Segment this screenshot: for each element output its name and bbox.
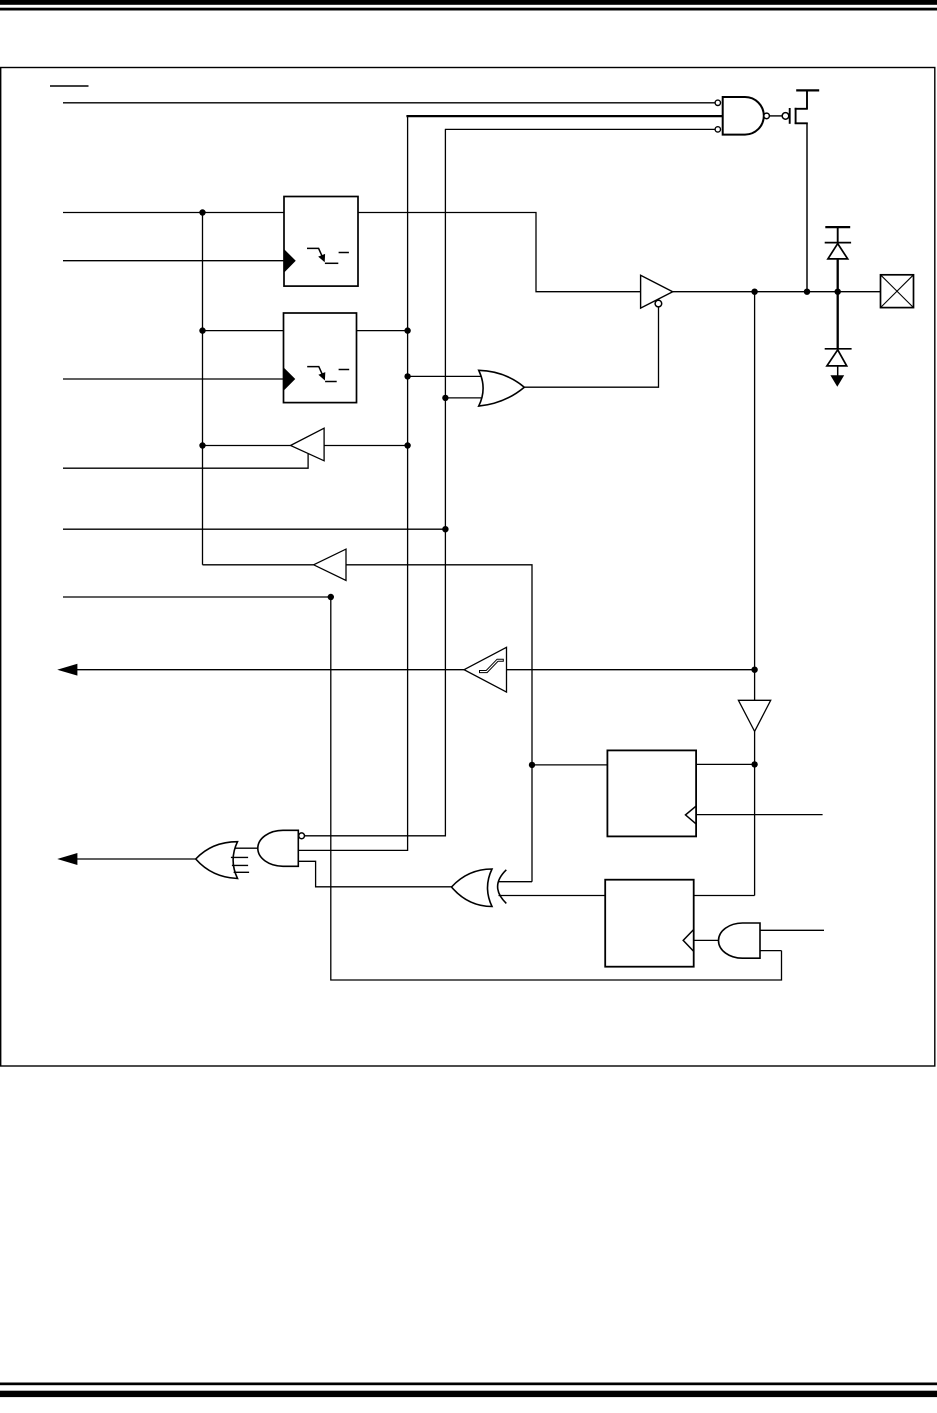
junction	[199, 209, 205, 215]
wire PMOS drain to pad node	[806, 123, 808, 291]
page footer thin rule	[0, 1383, 937, 1386]
junction	[751, 761, 757, 767]
inverter U3 (left-pointing)	[314, 549, 346, 580]
VDD rail bar	[796, 89, 819, 91]
buffer U6 (down-pointing)	[738, 700, 770, 731]
wire U7 input from feedback bus	[507, 669, 755, 671]
diode D1 (to VDD)	[828, 244, 848, 259]
wire output node to pad	[673, 291, 881, 293]
junction	[751, 667, 757, 673]
U5 enable bubble	[655, 300, 662, 307]
wire feedback bus upper	[754, 292, 756, 701]
VDD rail bar (diode)	[825, 226, 850, 228]
wire U3 input from x532 bus	[346, 565, 532, 882]
wire B1 output to driver	[358, 213, 641, 292]
junction	[442, 526, 448, 532]
diode D2 (to GND)	[827, 350, 847, 366]
junction	[804, 289, 810, 295]
output driver U5	[641, 275, 673, 308]
flip-flop FF1	[607, 750, 696, 836]
wire input line 4 to inverter enable	[63, 454, 308, 468]
input buffer box B1	[284, 197, 358, 287]
inverter U2 (left-pointing)	[291, 428, 325, 461]
junction	[328, 594, 334, 600]
wire NAND to PMOS gate	[769, 115, 782, 117]
wire U7 output	[76, 669, 465, 671]
junction	[404, 373, 410, 379]
wire XOR in2 / FF2 left	[499, 895, 606, 897]
wire input 1 to NAND	[63, 102, 715, 104]
B1 falling-edge glyph	[307, 248, 349, 263]
NAND gate G1	[723, 97, 764, 135]
diode D2 cathode bar	[825, 348, 852, 350]
NAND input bubble 2	[715, 127, 720, 132]
wire U9 input 1 stub	[760, 929, 824, 931]
page header thick rule	[0, 0, 937, 5]
wire U9 input 2	[760, 950, 782, 952]
NAND output bubble	[764, 113, 770, 119]
junction	[835, 289, 841, 295]
wire D2 anode to ground	[837, 366, 839, 376]
B2 falling-edge glyph	[307, 367, 349, 382]
wire U3 output	[203, 564, 314, 566]
wire bus x407	[298, 116, 407, 850]
pad P1	[881, 275, 914, 308]
wire to B2 input	[203, 330, 284, 332]
wire input line 6 feedback loop	[63, 597, 782, 980]
wire input line 1	[63, 212, 284, 214]
wire XOR output to U10 in3	[298, 861, 451, 887]
FF2 clock chevron	[683, 930, 694, 952]
wire U10 output to U11	[234, 847, 259, 849]
junction	[199, 327, 205, 333]
U7 slew-rate glyph	[480, 659, 504, 672]
junction	[404, 442, 410, 448]
U10 input bubble	[299, 833, 305, 839]
page header thin rule	[0, 8, 937, 11]
wire diode D1 cathode stem	[837, 227, 839, 243]
wire node to D2 cathode	[837, 292, 839, 349]
FF1 clock chevron	[686, 806, 697, 824]
PMOS gate bubble	[782, 113, 789, 120]
Schmitt buffer U7 (left-pointing)	[464, 647, 506, 692]
B2 clock wedge input	[284, 369, 294, 389]
wire U4 output to driver enable	[524, 307, 658, 387]
wire U4 input 1	[408, 375, 482, 377]
AND gate U9	[719, 923, 761, 958]
OR gate U4	[479, 370, 525, 406]
wire FF1 input	[532, 764, 607, 766]
wire U4 input 2	[445, 397, 481, 399]
transistor Q1 (PMOS pull-up)	[790, 90, 808, 124]
wire U2 output	[203, 445, 291, 447]
flip-flop FF2	[605, 880, 694, 967]
wire NAND input 3	[445, 128, 715, 130]
wire feedback bus lower	[754, 731, 756, 895]
arrowhead output 2	[59, 854, 77, 865]
label underline	[50, 85, 89, 87]
B1 clock wedge input	[285, 251, 295, 271]
figure frame	[1, 68, 935, 1067]
arrowhead output 1	[59, 664, 77, 675]
junction	[404, 327, 410, 333]
wire FF1 output	[696, 763, 755, 765]
wire AND U9 output to FF2 clock	[694, 939, 720, 941]
junction	[199, 442, 205, 448]
page footer thick rule	[0, 1391, 937, 1397]
ground arrow	[831, 376, 843, 386]
wire bus x445	[305, 129, 446, 835]
input buffer box B2	[284, 313, 357, 403]
junction	[442, 395, 448, 401]
junction	[751, 289, 757, 295]
junction	[529, 762, 535, 768]
wire U11 output	[76, 858, 196, 860]
OR gate U11 (left-pointing)	[196, 842, 249, 879]
wire input line 2	[63, 260, 285, 262]
wire vertical bus x202	[202, 212, 204, 565]
wire to FF2 right side	[694, 895, 755, 897]
wire FF1 clock stub	[696, 814, 823, 816]
wire input line 3	[63, 378, 284, 380]
XOR gate U8 (left-pointing)	[452, 869, 507, 907]
wire XOR input 1	[499, 881, 532, 883]
wire U2 input	[324, 445, 408, 447]
diode D1 cathode bar	[825, 242, 851, 244]
wire NAND input 2 (thick)	[406, 115, 722, 117]
NAND input bubble 1	[715, 100, 720, 105]
wire D1 anode to node	[837, 259, 839, 292]
wire input line 5	[63, 528, 445, 530]
AND gate U10 (left-pointing, bubbled input)	[258, 830, 299, 866]
wire B2 output	[357, 330, 408, 332]
